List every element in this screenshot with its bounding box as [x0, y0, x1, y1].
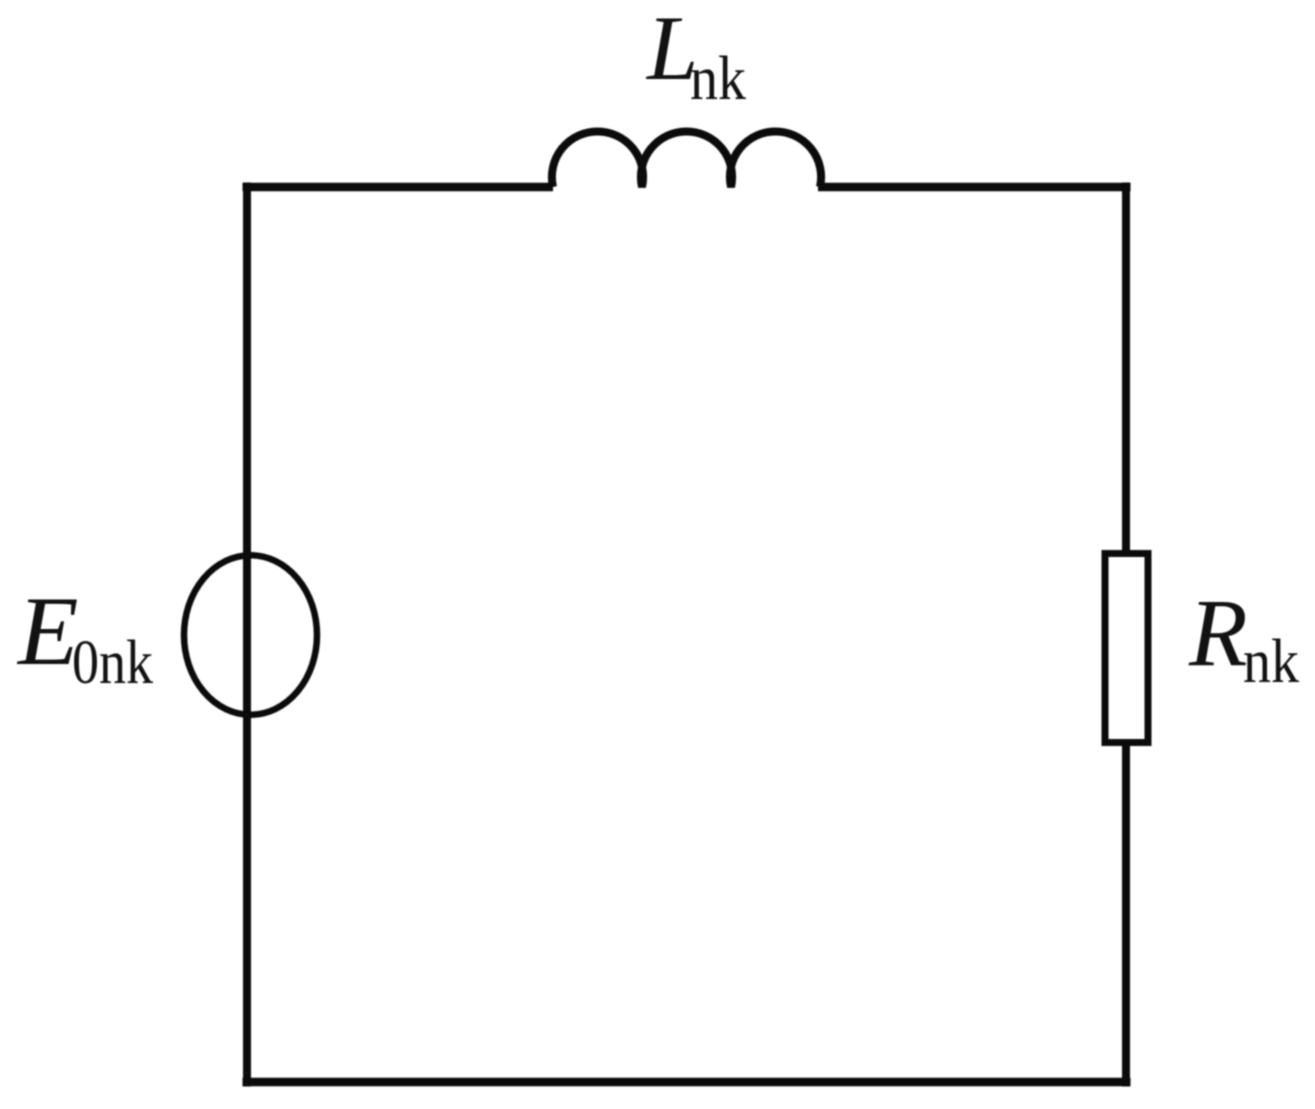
wire: right vertical upper	[1122, 183, 1130, 555]
wire: bottom horizontal	[243, 1078, 1131, 1087]
svg-text:0nk: 0nk	[72, 629, 153, 697]
voltage source E0nk circle	[184, 555, 317, 715]
svg-text:E: E	[16, 577, 78, 686]
svg-text:R: R	[1188, 579, 1248, 686]
wire: top-left horizontal segment	[243, 183, 554, 192]
wire: top-right horizontal segment	[818, 183, 1131, 192]
svg-text:nk: nk	[1243, 628, 1299, 696]
resistor Rnk body	[1105, 554, 1148, 743]
wire: left vertical	[243, 183, 251, 1087]
wire: right vertical lower	[1122, 742, 1130, 1087]
svg-text:nk: nk	[690, 45, 746, 113]
inductor Lnk	[552, 131, 821, 187]
